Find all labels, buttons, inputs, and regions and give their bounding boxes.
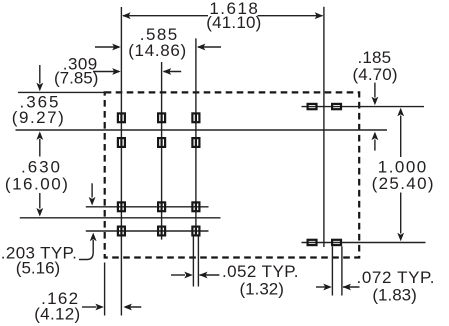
pad column3 row3 bbox=[192, 202, 199, 211]
arrowhead .052 left bbox=[184, 272, 193, 279]
svg-text:(1.32): (1.32) bbox=[239, 280, 283, 299]
extension line: pad column 3 centerline bbox=[195, 38, 197, 236]
dimension line 1.618 left segment bbox=[123, 15, 208, 17]
arrowhead .585 right bbox=[197, 44, 206, 51]
pad column1 row1 bbox=[118, 113, 125, 122]
arrowhead .185 down bbox=[372, 97, 379, 106]
svg-text:.052 TYP.: .052 TYP. bbox=[222, 262, 299, 281]
svg-text:(9.27): (9.27) bbox=[12, 108, 64, 127]
dimension .072 left arrow shaft bbox=[316, 286, 326, 288]
extension line: outline top edge (for .365) bbox=[18, 91, 106, 93]
pad column1 row4 bbox=[118, 227, 125, 236]
pad column2 row1 bbox=[158, 113, 165, 122]
pad column1 row3 bbox=[118, 202, 125, 211]
dimension .365/.630 shared up arrow shaft bbox=[39, 139, 41, 157]
dimension .072 right arrow shaft bbox=[343, 286, 360, 288]
svg-text:(25.40): (25.40) bbox=[372, 174, 434, 193]
right pad top-right bbox=[332, 104, 341, 109]
dimension .162 left arrow shaft bbox=[82, 306, 97, 308]
arrowhead .185 up bbox=[372, 132, 379, 141]
dimension line .309 right bbox=[164, 71, 182, 73]
arrowhead 1.000 down bbox=[397, 233, 404, 242]
arrowhead .309 right bbox=[163, 68, 172, 75]
extension line: pad column 1 centerline bbox=[120, 7, 122, 316]
svg-text:(5.16): (5.16) bbox=[16, 259, 60, 278]
arrowhead .630 down bbox=[36, 208, 43, 217]
extension line: pad left edge (for .072 TYP.) bbox=[331, 246, 333, 295]
right pad top-left bbox=[308, 104, 317, 109]
pad column3 row2 bbox=[192, 138, 199, 147]
pad column3 row1 bbox=[192, 113, 199, 122]
dimension line .585 left bbox=[95, 46, 119, 48]
arrowhead .052 right bbox=[199, 272, 208, 279]
svg-text:(41.10): (41.10) bbox=[206, 13, 261, 32]
arrowhead 1.618 right bbox=[315, 12, 324, 19]
extension line: right pad column centerline bbox=[323, 7, 325, 247]
dimension line .309 left bbox=[93, 71, 119, 73]
dimension .185 bottom arrow shaft bbox=[374, 140, 376, 151]
arrowhead .203 down bbox=[89, 197, 96, 206]
svg-text:(7.85): (7.85) bbox=[54, 69, 98, 88]
arrowhead .072 right bbox=[343, 284, 352, 291]
dimension .630 bottom arrow shaft bbox=[39, 193, 41, 209]
svg-text:(4.12): (4.12) bbox=[34, 304, 80, 323]
dimension .185 top arrow shaft bbox=[374, 83, 376, 98]
arrowhead .072 left bbox=[323, 284, 332, 291]
arrowhead .585 left bbox=[112, 44, 121, 51]
extension line: pad row 3 centerline bbox=[86, 206, 209, 208]
extension line: pad row 4 centerline bbox=[86, 230, 209, 232]
extension line: right pads top row centerline bbox=[302, 106, 425, 108]
svg-text:(14.86): (14.86) bbox=[128, 41, 186, 60]
pad column2 row3 bbox=[158, 202, 165, 211]
pad column2 row4 bbox=[158, 227, 165, 236]
component outline (dashed) bbox=[105, 92, 360, 257]
dimension .203 top arrow shaft bbox=[91, 183, 93, 197]
arrowhead .162 right bbox=[123, 304, 131, 311]
extension line: pad right edge (for .072 TYP.) bbox=[341, 246, 343, 295]
arrowhead 1.000 up bbox=[397, 108, 404, 117]
extension line: outline left edge (for .162) bbox=[104, 263, 106, 316]
dimension .052 left arrow shaft bbox=[171, 274, 185, 276]
dimension .052 right arrow shaft bbox=[200, 274, 220, 276]
dimension 1.000 top arrow shaft bbox=[400, 116, 402, 158]
pad column1 row2 bbox=[118, 138, 125, 147]
extension line: right pads bottom row centerline bbox=[302, 242, 426, 244]
pad column2 row2 bbox=[158, 138, 165, 147]
arrowhead .203 up bbox=[90, 233, 97, 242]
svg-text:(1.83): (1.83) bbox=[372, 285, 416, 304]
arrowhead .365 down bbox=[36, 83, 43, 92]
right pad bottom-left bbox=[308, 240, 317, 245]
extension line: hole left edge (for .052 TYP.) bbox=[192, 236, 194, 286]
dimension .203 bent leader bbox=[79, 240, 93, 260]
svg-text:(4.70): (4.70) bbox=[353, 65, 398, 84]
dimension line .585 right bbox=[198, 46, 221, 48]
dimension .162 right arrow shaft bbox=[125, 306, 141, 308]
arrowhead .309 left bbox=[112, 68, 121, 75]
dimension line 1.618 right segment bbox=[258, 15, 323, 17]
extension line: midline of pad rows 3-4 bbox=[20, 217, 221, 219]
extension line: midline of pad rows 1-2 bbox=[16, 129, 388, 131]
dimension .365 top arrow shaft bbox=[39, 65, 41, 84]
arrowhead .365/.630 up bbox=[36, 131, 43, 140]
dimension 1.000 bottom arrow shaft bbox=[400, 193, 402, 234]
arrowhead .162 left bbox=[95, 304, 104, 311]
svg-text:(16.00): (16.00) bbox=[5, 174, 68, 193]
arrowhead 1.618 left bbox=[122, 12, 131, 19]
right pad bottom-right bbox=[332, 240, 341, 245]
pad column3 row4 bbox=[192, 227, 199, 236]
extension line: pad column 2 centerline bbox=[161, 62, 163, 240]
extension line: hole right edge (for .052 TYP.) bbox=[197, 236, 199, 286]
